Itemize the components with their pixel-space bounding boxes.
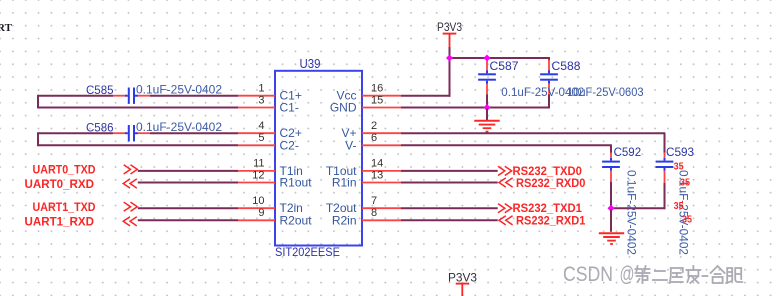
- wire C587 bottom to GND rail: [486, 94, 488, 107]
- svg-text:1: 1: [258, 83, 264, 95]
- wire C2- return: [38, 144, 238, 146]
- wire C2+ right segment: [150, 132, 238, 134]
- wire Vcc pin16 to riser: [401, 95, 450, 97]
- capacitor C593: [656, 158, 674, 171]
- wire GND rail pin15: [401, 107, 550, 109]
- wire C593 bottom drop: [664, 183, 666, 209]
- svg-text:UART1_TXD: UART1_TXD: [33, 202, 96, 214]
- pin 13 (R1in) stub: [362, 182, 401, 184]
- port arrow RS232_TXD0: [498, 166, 512, 175]
- svg-text:RT: RT: [0, 22, 13, 34]
- pin 8 (R2in) stub: [362, 219, 401, 221]
- svg-text:35: 35: [674, 161, 684, 173]
- wire C2+ left segment: [38, 132, 113, 134]
- wire RS232_RXD0: [401, 182, 498, 184]
- svg-text:16: 16: [371, 83, 383, 95]
- wire C1+ right segment: [150, 95, 238, 97]
- wire UART0_RXD: [138, 182, 238, 184]
- op-amp/transceiver U39 body: [275, 71, 362, 246]
- svg-text:0.1uF-25V-0402: 0.1uF-25V-0402: [136, 120, 222, 134]
- pin C593 top: [664, 152, 666, 158]
- svg-text:35: 35: [682, 214, 692, 226]
- svg-text:P3V3: P3V3: [437, 20, 462, 34]
- pin C593 bottom: [664, 171, 666, 183]
- port arrow RS232_RXD1: [499, 216, 513, 225]
- svg-text:8: 8: [371, 207, 377, 219]
- svg-text:RS232_RXD1: RS232_RXD1: [516, 216, 586, 228]
- pin C588 top: [548, 60, 550, 71]
- port arrow UART0_RXD: [123, 179, 137, 188]
- svg-text:GND: GND: [330, 101, 357, 115]
- junction P3V3/rail: [446, 54, 453, 61]
- pin 4 (C2+) stub: [238, 132, 275, 134]
- wire P3V3 to rail: [449, 47, 451, 58]
- port arrow UART0_TXD: [124, 165, 138, 174]
- pin 10 (T2in) stub: [238, 207, 275, 209]
- junction C587 top: [483, 54, 490, 61]
- wire C592-C593 bottom link: [611, 207, 666, 209]
- svg-text:RS232_TXD0: RS232_TXD0: [513, 166, 582, 178]
- svg-text:4: 4: [258, 120, 264, 132]
- wire V+ pin2 rail: [401, 132, 665, 134]
- port arrow UART1_TXD: [124, 202, 138, 211]
- pin C588 bottom: [548, 84, 550, 95]
- svg-text:C2-: C2-: [280, 138, 299, 152]
- wire UART0_TXD: [138, 170, 238, 172]
- svg-text:2: 2: [371, 120, 377, 132]
- svg-text:5: 5: [258, 132, 264, 144]
- capacitor C586: [113, 125, 150, 141]
- svg-text:10uF-25V-0603: 10uF-25V-0603: [567, 85, 644, 99]
- svg-text:P3V3: P3V3: [448, 270, 477, 284]
- power symbol P3V3 bar: [443, 33, 457, 35]
- port arrow RS232_TXD1: [498, 204, 512, 213]
- pin 1 (C1+) stub: [238, 95, 275, 97]
- svg-text:7: 7: [371, 195, 377, 207]
- power symbol P3V3 stem: [449, 35, 451, 48]
- svg-text:15: 15: [371, 94, 383, 106]
- watermark char 皮: [686, 266, 700, 283]
- capacitor C588: [540, 71, 558, 84]
- svg-text:11: 11: [253, 158, 264, 170]
- capacitor C587: [478, 71, 496, 84]
- wire C1- return: [38, 107, 238, 109]
- svg-text:C587: C587: [490, 59, 519, 73]
- watermark char 二: [653, 271, 667, 280]
- watermark hyphen: [702, 275, 707, 277]
- pin 5 (C2-) stub: [238, 144, 275, 146]
- svg-text:9: 9: [258, 207, 264, 219]
- pin 7 (T2out) stub: [362, 207, 401, 209]
- svg-text:C592: C592: [614, 145, 642, 159]
- pin 9 (R2out) stub: [238, 219, 275, 221]
- svg-text:U39: U39: [300, 57, 321, 71]
- port arrow UART1_RXD: [123, 217, 137, 226]
- wire C1+ left segment: [38, 95, 113, 97]
- svg-text:CSDN: CSDN: [563, 263, 613, 286]
- svg-text:V-: V-: [345, 138, 356, 152]
- wire V+ drop to C593: [664, 133, 666, 153]
- svg-text:35: 35: [674, 200, 684, 212]
- wire V- drop to C592: [610, 145, 612, 153]
- wire RS232_TXD0: [401, 170, 498, 172]
- power symbol P3V3 (bottom) bar: [456, 283, 470, 285]
- pin 14 (T1out) stub: [362, 170, 401, 172]
- pin C592 top: [610, 152, 612, 158]
- svg-text:SIT202EESE: SIT202EESE: [275, 245, 340, 259]
- svg-text:RS232_RXD0: RS232_RXD0: [516, 178, 585, 190]
- pin 12 (R1out) stub: [238, 182, 275, 184]
- svg-text:C586: C586: [86, 120, 114, 134]
- svg-text:C588: C588: [552, 59, 581, 73]
- pin C587 top: [486, 59, 488, 71]
- wire C592 bottom to junction: [610, 182, 612, 209]
- svg-text:R1out: R1out: [280, 176, 313, 190]
- ground symbol (near C587): [474, 121, 499, 132]
- svg-text:0.1uF-25V-0402: 0.1uF-25V-0402: [136, 82, 222, 96]
- svg-text:UART0_TXD: UART0_TXD: [33, 165, 96, 177]
- svg-text:C593: C593: [666, 145, 694, 159]
- wire C588 bottom corner: [548, 95, 550, 108]
- wire UART1_TXD: [138, 207, 238, 209]
- capacitor C585: [113, 88, 150, 104]
- svg-text:C1-: C1-: [280, 101, 299, 115]
- capacitor C592: [602, 158, 620, 171]
- svg-text:UART1_RXD: UART1_RXD: [25, 217, 95, 229]
- wire RS232_TXD1: [401, 207, 498, 209]
- pin 11 (T1in) stub: [238, 170, 275, 172]
- watermark char 合: [711, 266, 725, 283]
- wire C588 top corner: [548, 58, 550, 61]
- ground symbol (near C592): [599, 233, 624, 244]
- svg-text:35: 35: [680, 177, 690, 189]
- svg-text:3: 3: [258, 94, 264, 106]
- svg-text:12: 12: [252, 169, 264, 181]
- wire top rail P3V3: [450, 57, 551, 59]
- watermark char 层: [670, 268, 683, 283]
- svg-text:R2in: R2in: [332, 213, 357, 227]
- port arrow RS232_RXD0: [499, 178, 513, 187]
- wire to ground 2: [610, 209, 612, 232]
- svg-text:R2out: R2out: [280, 213, 313, 227]
- svg-text:0.1uF-25V-0402: 0.1uF-25V-0402: [624, 170, 638, 255]
- junction C587 bottom / GND rail: [483, 104, 490, 111]
- pin 2 (V+) stub: [362, 132, 401, 134]
- svg-text:UART0_RXD: UART0_RXD: [25, 179, 95, 191]
- svg-text:C585: C585: [86, 83, 114, 97]
- svg-text:R1in: R1in: [332, 176, 357, 190]
- pin 16 (Vcc) stub: [362, 95, 401, 97]
- wire V- pin6 rail: [401, 144, 612, 146]
- svg-text:13: 13: [371, 169, 383, 181]
- wire Vcc riser: [449, 58, 451, 97]
- wire loop1 left vertical: [37, 95, 39, 109]
- svg-text:10: 10: [252, 195, 264, 207]
- svg-text:6: 6: [371, 132, 377, 144]
- pin C592 bottom: [610, 171, 612, 182]
- wire to ground: [486, 109, 488, 121]
- junction C592 bottom: [607, 205, 614, 212]
- svg-text:14: 14: [371, 158, 383, 170]
- pin C587 bottom: [486, 84, 488, 95]
- watermark char 肥: [726, 268, 742, 283]
- wire UART1_RXD: [138, 219, 238, 221]
- watermark char 第: [636, 266, 650, 283]
- power symbol P3V3 (bottom) stem: [461, 285, 463, 296]
- pin 6 (V-) stub: [362, 144, 401, 146]
- wire loop2 left vertical: [37, 132, 39, 146]
- pin 15 (GND) stub: [362, 107, 401, 109]
- wire RS232_RXD1: [401, 219, 498, 221]
- pin 3 (C1-) stub: [238, 107, 275, 109]
- svg-text:RS232_TXD1: RS232_TXD1: [513, 203, 583, 215]
- svg-text:@: @: [620, 263, 635, 286]
